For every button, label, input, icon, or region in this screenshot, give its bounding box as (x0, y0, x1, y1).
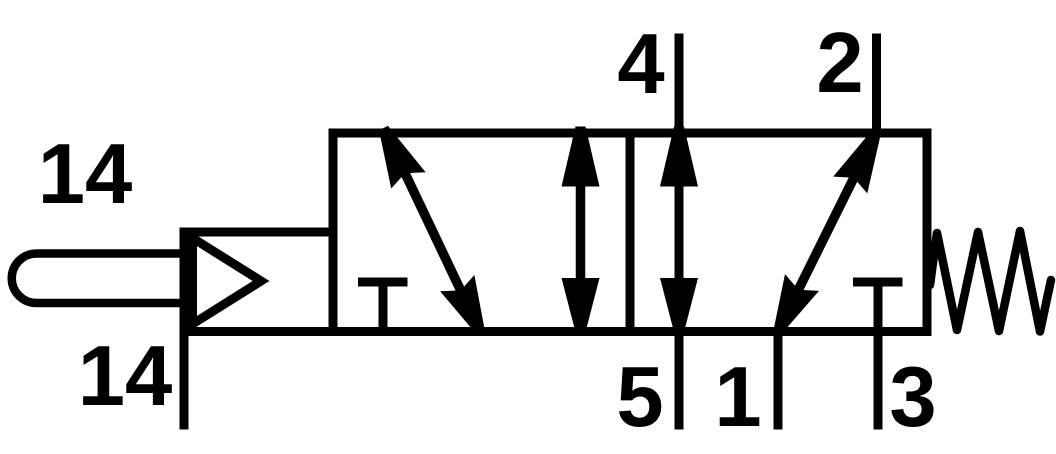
port 3 line with blocked-port stem (874, 282, 883, 430)
flow path arrow, left box diagonal (double headed) (379, 126, 485, 333)
valve body: left position box (333, 133, 630, 332)
pilot actuator box (184, 232, 333, 332)
svg-text:3: 3 (889, 350, 936, 445)
port 1 line (774, 331, 783, 430)
port 4-5 line (top 4, through right box, bottom 5) (675, 34, 684, 430)
pilot signal line 14 (180, 331, 189, 430)
blocked port symbol T (left box) (358, 282, 408, 331)
valve body: right position box (630, 133, 927, 332)
flow path arrow, right box vertical 4-5 (double headed) (660, 127, 698, 333)
svg-text:2: 2 (816, 16, 863, 111)
port 2 line (872, 34, 881, 134)
svg-text:5: 5 (616, 350, 663, 445)
flow path arrow, left box vertical (double headed) (562, 127, 600, 333)
svg-text:14: 14 (38, 127, 133, 222)
blocked port symbol T (right box, port 3) (853, 278, 903, 287)
pilot plunger (capsule) (12, 254, 184, 304)
pneumatic pilot triangle (193, 238, 262, 324)
svg-text:14: 14 (78, 329, 173, 424)
return spring (930, 231, 1051, 332)
flow path arrow, right box diagonal 1-2 (double headed) (774, 131, 881, 332)
svg-text:1: 1 (714, 350, 761, 445)
svg-text:4: 4 (617, 17, 664, 112)
